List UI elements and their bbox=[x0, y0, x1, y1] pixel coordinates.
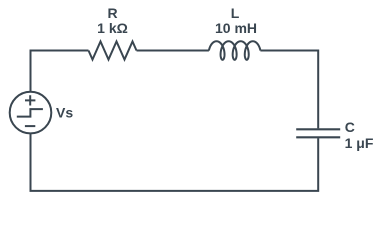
wire: right rail below capacitor + bottom rail + left rail up to source bottom bbox=[31, 134, 319, 191]
wire: top rail between resistor and inductor bbox=[137, 50, 209, 52]
plus sign inside source bbox=[25, 95, 35, 105]
step waveform symbol inside source bbox=[17, 109, 43, 117]
svg-text:1 μF: 1 μF bbox=[345, 135, 374, 151]
capacitor C bottom plate bbox=[296, 136, 340, 138]
wire: left rail from source top to corner, then top rail to resistor bbox=[31, 51, 89, 93]
svg-text:10 mH: 10 mH bbox=[215, 20, 257, 36]
svg-text:L: L bbox=[231, 5, 240, 21]
wire: top rail right of inductor + right rail down to capacitor bbox=[260, 51, 318, 129]
svg-text:C: C bbox=[345, 119, 355, 135]
resistor R bbox=[89, 42, 137, 60]
inductor L bbox=[209, 41, 261, 60]
svg-text:R: R bbox=[107, 5, 117, 21]
capacitor C top plate bbox=[296, 128, 340, 130]
minus sign inside source bbox=[25, 125, 35, 127]
svg-text:Vs: Vs bbox=[56, 105, 73, 121]
svg-text:1 kΩ: 1 kΩ bbox=[97, 20, 128, 36]
voltage source Vs circle bbox=[10, 92, 52, 134]
